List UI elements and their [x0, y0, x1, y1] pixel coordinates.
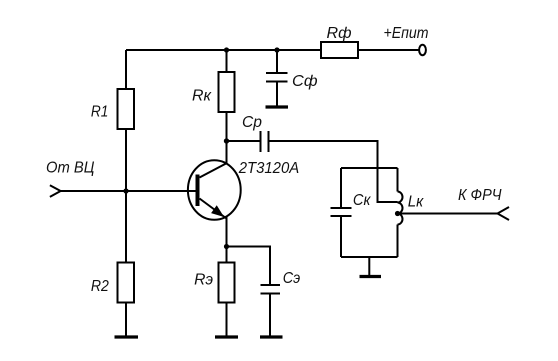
wire tank right upper — [397, 168, 399, 192]
junction dot rail-Rk — [224, 47, 229, 52]
resistor Re — [219, 263, 235, 303]
capacitor Ce — [261, 285, 281, 294]
terminal +Epit circle — [419, 45, 426, 55]
capacitor Cf — [266, 73, 288, 82]
svg-text:Cк: Cк — [353, 192, 372, 209]
junction dot collector-Cp — [224, 138, 229, 143]
svg-text:+Eпит: +Eпит — [384, 25, 429, 42]
output terminal arrow — [498, 207, 510, 220]
junction dot emitter node — [224, 244, 229, 249]
svg-text:Rф: Rф — [327, 25, 352, 42]
wire Rk to collector node — [226, 112, 228, 164]
resistor R2 — [118, 263, 135, 303]
resistor Rf — [321, 42, 358, 58]
wire Cf to ground — [276, 82, 278, 106]
svg-text:2Т3120А: 2Т3120А — [238, 160, 299, 177]
svg-text:Cр: Cр — [242, 114, 262, 131]
wire emitter node to Re — [226, 247, 228, 263]
ground below Cf — [266, 105, 289, 108]
svg-text:Rэ: Rэ — [194, 272, 213, 289]
wire collector node to Cp — [227, 140, 261, 142]
transistor Q1 collector line — [200, 163, 227, 177]
svg-text:Cф: Cф — [292, 73, 318, 90]
svg-text:От ВЦ: От ВЦ — [46, 160, 95, 177]
transistor Q1 circle — [188, 160, 241, 220]
ground below R2 — [115, 335, 139, 338]
capacitor Cp — [261, 131, 269, 152]
svg-text:Lк: Lк — [408, 194, 425, 211]
wire tank ground stub — [368, 257, 370, 276]
wire R2 to ground — [125, 303, 127, 336]
wire tank left lower — [340, 216, 342, 257]
input terminal arrow — [50, 185, 61, 197]
svg-text:Rк: Rк — [192, 87, 212, 104]
wire Ce to ground — [269, 294, 271, 336]
wire Cf branch upper — [276, 50, 278, 73]
wire R1 to base node — [125, 129, 127, 191]
wire top rail left — [126, 49, 321, 51]
ground below Ce — [260, 335, 283, 338]
ground below tank — [360, 275, 382, 278]
svg-text:R2: R2 — [91, 278, 109, 295]
wire Re to ground — [226, 303, 228, 336]
wire Cp to tank tap — [269, 141, 398, 202]
inductor Lk — [398, 192, 403, 225]
transistor Q1 base bar — [196, 175, 200, 207]
wire tank right lower — [397, 225, 399, 258]
wire emitter down — [226, 217, 228, 247]
wire tank bottom rail — [341, 256, 398, 258]
svg-text:R1: R1 — [91, 103, 109, 120]
wire input line — [61, 190, 196, 192]
capacitor Ck — [331, 208, 352, 216]
wire tank top rail — [341, 167, 398, 169]
transistor Q1 emitter arrow — [212, 206, 223, 216]
svg-text:Cэ: Cэ — [283, 270, 301, 287]
wire Rk branch upper — [226, 50, 228, 72]
wire R1 branch upper — [125, 50, 127, 89]
wire base node to R2 — [125, 191, 127, 263]
junction dot rail-Cf — [274, 47, 279, 52]
ground below Re — [215, 335, 238, 338]
wire output line — [398, 213, 498, 215]
transistor Q1 emitter line — [200, 199, 227, 219]
junction dot Lk tap — [395, 211, 400, 216]
junction dot base node — [123, 188, 128, 193]
wire top rail right — [358, 49, 420, 51]
wire emitter node to Ce — [227, 247, 271, 286]
resistor R1 — [118, 89, 135, 129]
svg-text:К ФРЧ: К ФРЧ — [458, 187, 502, 204]
resistor Rk — [219, 72, 235, 112]
wire tank left upper — [340, 168, 342, 208]
